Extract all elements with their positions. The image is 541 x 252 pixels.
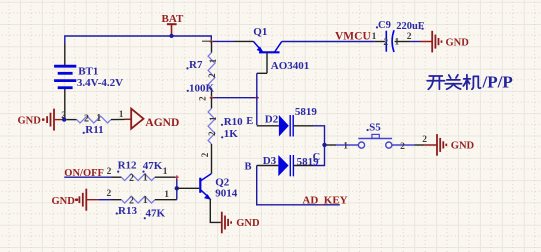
node C label <box>313 152 321 163</box>
wire node C to S5 <box>327 144 337 146</box>
transistor Q2 9014 <box>200 174 237 200</box>
svg-text:D3: D3 <box>263 155 277 167</box>
svg-text:D2: D2 <box>265 114 279 126</box>
wire R12/R13 vertical to Q2 base <box>176 177 178 199</box>
svg-text:GND: GND <box>236 218 260 229</box>
svg-text:1: 1 <box>395 38 400 48</box>
wire node B down to AD_KEY <box>257 166 340 205</box>
svg-text:1: 1 <box>208 116 218 121</box>
svg-text:2: 2 <box>407 32 412 42</box>
wire Q1 gate vertical to node E <box>256 73 258 125</box>
capacitor C9 220uF <box>372 20 425 52</box>
svg-text:/P/P: /P/P <box>482 73 513 92</box>
svg-text:E: E <box>246 116 253 127</box>
svg-text:AO3401: AO3401 <box>271 60 310 72</box>
svg-text:1: 1 <box>343 141 348 151</box>
svg-text:2: 2 <box>207 131 217 136</box>
svg-text:2: 2 <box>200 152 210 157</box>
svg-text:GND: GND <box>18 115 42 126</box>
svg-text:1: 1 <box>119 109 124 119</box>
net label VMCU <box>335 30 371 42</box>
svg-text:47K: 47K <box>143 160 163 172</box>
wire S5 to GND <box>415 135 428 145</box>
wire GND to R13 <box>98 189 111 200</box>
ground GND (battery) <box>18 109 64 131</box>
transistor Q1 AO3401 <box>235 26 310 73</box>
svg-text:R13: R13 <box>118 205 137 217</box>
resistor R10 <box>200 98 243 174</box>
wire Q2 emitter to GND <box>210 199 220 222</box>
junction node battery/GND/R11 <box>62 117 66 121</box>
svg-text:Q1: Q1 <box>253 26 267 38</box>
svg-text:GND: GND <box>52 196 76 207</box>
svg-text:2: 2 <box>129 173 134 184</box>
svg-text:GND: GND <box>446 37 470 48</box>
svg-text:GND: GND <box>451 141 475 152</box>
svg-text:100K: 100K <box>189 82 215 94</box>
text annotation kai-guan-ji /P/P <box>427 73 513 92</box>
resistor R7 <box>186 41 217 101</box>
resistor R12 <box>112 159 177 184</box>
svg-text:220uF: 220uF <box>396 21 424 32</box>
junction cross left <box>210 96 214 100</box>
svg-text:47K: 47K <box>146 207 166 219</box>
svg-text:9014: 9014 <box>215 188 238 200</box>
svg-text:1: 1 <box>96 113 101 124</box>
ground GND (Q2) <box>220 212 260 234</box>
wire ON/OFF to R12 <box>64 167 111 177</box>
svg-text:R12: R12 <box>118 159 137 171</box>
svg-text:1: 1 <box>143 173 148 184</box>
diode D3 5819 <box>257 155 319 177</box>
svg-text:BAT: BAT <box>162 13 184 25</box>
junction dot Q2 base <box>175 186 179 190</box>
svg-text:1K: 1K <box>224 128 239 140</box>
junction cross R7 top corner <box>210 40 214 44</box>
wire R7/R10 junction row <box>212 97 258 99</box>
junction cross right <box>255 96 259 100</box>
node B label <box>245 162 252 173</box>
svg-text:2: 2 <box>198 96 208 101</box>
svg-text:C9: C9 <box>378 20 391 31</box>
svg-text:2: 2 <box>383 38 388 48</box>
wire BAT rail from battery top to R7 corner <box>65 36 235 44</box>
svg-text:1: 1 <box>143 195 148 206</box>
diode D2 5819 <box>257 106 318 137</box>
svg-text:C: C <box>313 152 321 163</box>
svg-text:Q2: Q2 <box>215 177 230 189</box>
svg-text:R7: R7 <box>189 59 203 71</box>
ground GND (R13) <box>52 189 99 211</box>
svg-text:2: 2 <box>400 142 405 152</box>
power port AGND <box>125 109 180 129</box>
svg-text:AGND: AGND <box>145 117 179 129</box>
power port BAT <box>162 13 184 35</box>
svg-text:R10: R10 <box>224 116 243 128</box>
wire to Q2 base <box>177 187 199 189</box>
switch S5 <box>336 121 415 152</box>
resistor R13 <box>112 190 177 220</box>
svg-text:2: 2 <box>84 113 89 124</box>
node E label <box>246 116 253 127</box>
wire C9 to GND <box>410 41 420 43</box>
wire D2 cathode to node C <box>313 126 325 143</box>
svg-text:VMCU: VMCU <box>335 30 371 42</box>
ground GND (S5) <box>424 134 475 156</box>
svg-text:1: 1 <box>372 32 377 42</box>
svg-text:3.4V-4.2V: 3.4V-4.2V <box>77 77 123 89</box>
resistor R11 <box>66 109 124 136</box>
wire Q1 collector to C9 <box>282 41 375 43</box>
svg-text:2: 2 <box>107 167 112 177</box>
svg-text:2: 2 <box>422 135 427 145</box>
net label AD_KEY <box>302 194 347 206</box>
svg-text:BT1: BT1 <box>78 65 98 77</box>
svg-text:5819: 5819 <box>295 106 318 118</box>
ground GND (C9) <box>420 31 469 53</box>
svg-text:2: 2 <box>207 73 217 78</box>
svg-text:1: 1 <box>208 58 218 63</box>
battery BT1 <box>54 44 123 121</box>
junction dot BAT <box>169 34 173 38</box>
svg-text:1: 1 <box>163 167 168 177</box>
junction dot node C <box>322 143 326 147</box>
svg-text:R11: R11 <box>85 124 103 136</box>
svg-text:S5: S5 <box>369 121 381 133</box>
wire D3 cathode to node C <box>313 147 325 166</box>
svg-text:AD_KEY: AD_KEY <box>302 194 347 206</box>
svg-text:2: 2 <box>107 189 112 199</box>
svg-text:B: B <box>245 162 252 173</box>
junction cross R12 corner <box>175 175 179 179</box>
net label ON/OFF <box>64 168 104 179</box>
svg-text:1: 1 <box>164 190 169 200</box>
